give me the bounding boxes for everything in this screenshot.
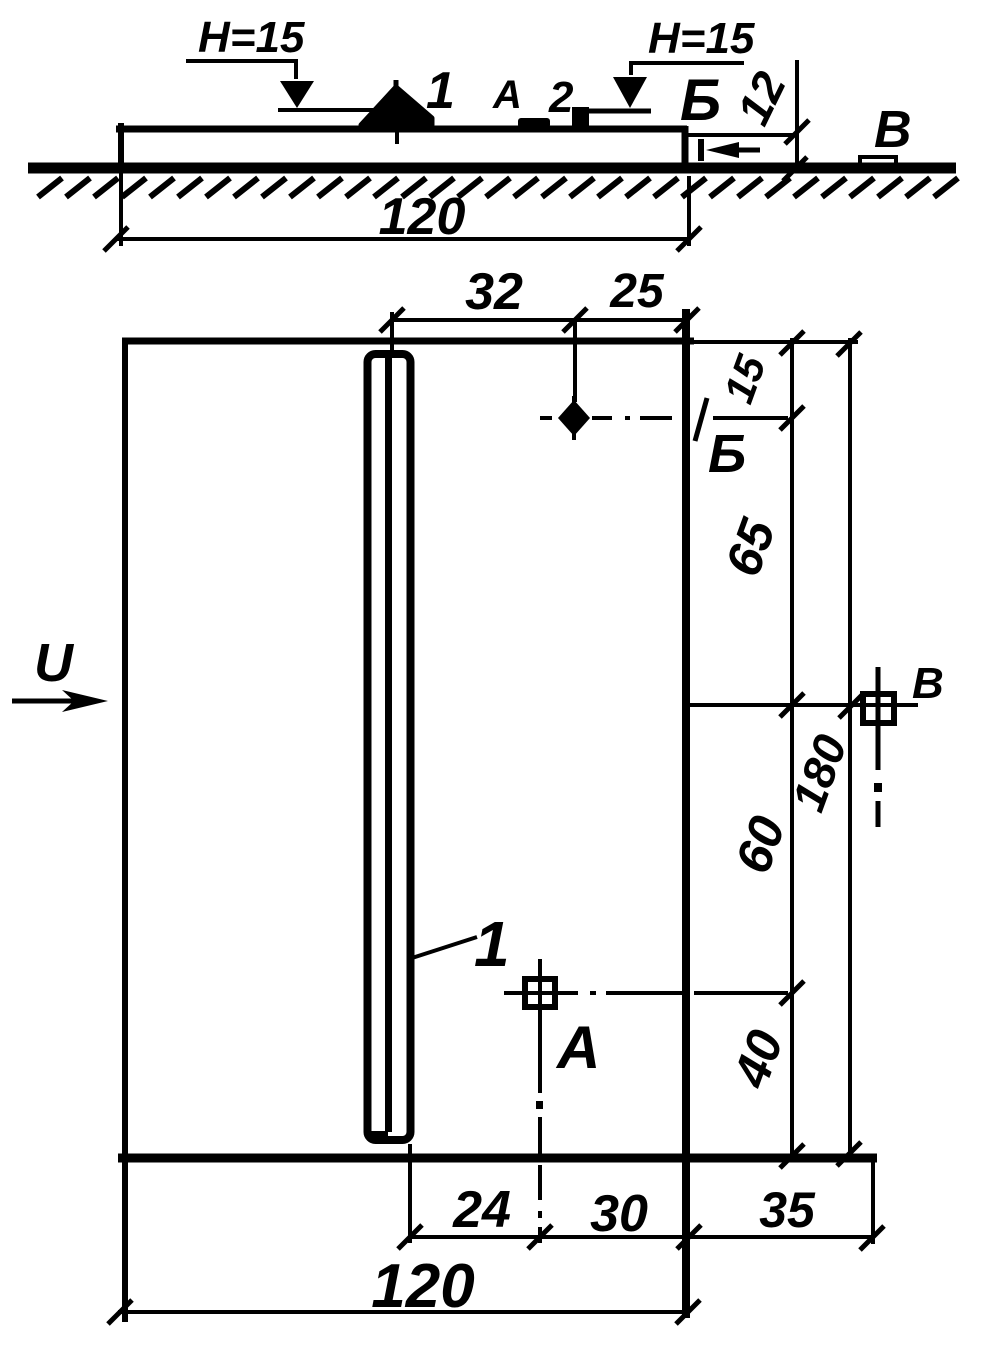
svg-text:32: 32 <box>465 263 523 321</box>
step line (H=15 baseline right / item 2 plate) <box>589 109 651 114</box>
svg-text:30: 30 <box>590 1185 648 1243</box>
extension of slot right wall down <box>408 1144 412 1243</box>
ground hatching <box>38 178 958 197</box>
svg-text:A: A <box>555 1014 600 1081</box>
svg-text:35: 35 <box>759 1182 816 1238</box>
dim line for 12 <box>795 60 799 172</box>
svg-text:В: В <box>874 101 912 159</box>
dim 120, section view <box>119 171 123 246</box>
tap A marker, plan view <box>525 979 555 1007</box>
flow arrow <box>12 699 80 704</box>
model plate, section view <box>118 123 124 171</box>
rib item 1, section view (triangle) <box>361 87 432 125</box>
tap B(ve) marker, plan view <box>863 694 894 723</box>
B(ve) level line <box>690 703 918 707</box>
svg-text:В: В <box>912 659 944 708</box>
pressure tap 2 marker (filled block) <box>572 107 589 130</box>
pressure tap A marker (bump on plate) <box>518 118 550 128</box>
svg-text:Б: Б <box>708 424 746 484</box>
svg-text:120: 120 <box>371 1252 474 1321</box>
svg-text:120: 120 <box>379 188 466 246</box>
svg-text:25: 25 <box>609 265 665 318</box>
svg-text:Б: Б <box>680 68 721 133</box>
svg-text:A: A <box>492 73 522 117</box>
steep tick at plate edge on Б line <box>695 398 707 441</box>
svg-text:H=15: H=15 <box>198 13 305 62</box>
leader for item 1, plan view <box>412 937 477 958</box>
svg-text:2: 2 <box>548 73 574 122</box>
svg-text:24: 24 <box>452 1181 511 1239</box>
svg-text:H=15: H=15 <box>648 14 755 63</box>
dim line 180 <box>848 338 852 1156</box>
bottom dimension 120 <box>118 1310 689 1314</box>
tap Б marker, plan view (filled diamond) <box>558 400 590 436</box>
svg-text:1: 1 <box>474 908 510 980</box>
svg-text:1: 1 <box>426 62 455 120</box>
svg-text:U: U <box>34 633 75 693</box>
bottom dimension row 24/30/35 <box>408 1235 875 1239</box>
right dimension chain line (15/65/60/40) <box>790 338 794 1158</box>
ground line (section view) <box>28 163 956 174</box>
top dimension line 32 / 25 <box>390 318 688 322</box>
plate top-edge extension to right <box>694 340 858 344</box>
tap Б direction arrow in section <box>698 139 704 161</box>
rib item 1, plan view (slot) <box>368 354 411 1140</box>
base plate, plan view <box>122 340 128 1322</box>
tap B(ve) marker on ground <box>860 157 896 166</box>
Б center line dashes <box>592 416 672 420</box>
